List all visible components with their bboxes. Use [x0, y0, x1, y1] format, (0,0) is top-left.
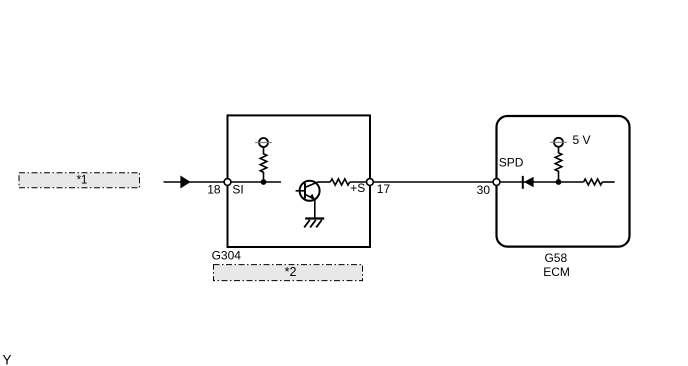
wire from *1 to pin 18	[164, 181, 228, 183]
svg-text:Y: Y	[3, 352, 12, 366]
svg-text:SPD: SPD	[499, 156, 524, 170]
svg-text:G304: G304	[212, 249, 242, 263]
shield box *1	[19, 173, 140, 188]
junction dot (SI / pull-up)	[261, 179, 267, 185]
pin 30 node	[493, 179, 500, 186]
wire junction to resistor R4	[559, 181, 584, 183]
wire resistor R4 end	[602, 181, 614, 183]
arrow (signal direction)	[180, 176, 190, 189]
shield box *2	[214, 265, 363, 281]
svg-text:18: 18	[207, 182, 221, 196]
transistor Q1	[296, 181, 320, 201]
svg-text:30: 30	[477, 183, 491, 197]
svg-text:SI: SI	[232, 182, 243, 196]
ground	[304, 219, 324, 228]
pin 18 node	[224, 179, 231, 186]
resistor R3 (5 V pull-up)	[555, 147, 562, 182]
pin 17 node	[367, 179, 374, 186]
svg-text:17: 17	[377, 182, 391, 196]
svg-text:G58: G58	[544, 251, 567, 265]
resistor R2 (output, +S)	[330, 179, 349, 185]
diode D1	[523, 176, 534, 189]
svg-text:+S: +S	[350, 181, 365, 195]
wire pin 30 to junction	[497, 181, 559, 183]
svg-text:*2: *2	[285, 265, 297, 279]
box U1 ECM	[497, 116, 630, 247]
box G304 (speed sensor)	[228, 115, 371, 247]
svg-text:ECM: ECM	[543, 265, 570, 279]
wire emitter to ground	[314, 199, 316, 219]
resistor R4 (ECM input)	[584, 179, 603, 185]
wire collector to resistor	[318, 181, 331, 183]
svg-text:*1: *1	[77, 175, 88, 187]
svg-text:5 V: 5 V	[573, 133, 591, 147]
junction dot (diode / pull-up)	[556, 179, 562, 185]
wire SI to transistor base	[228, 181, 282, 183]
power terminal circle (G304)	[255, 138, 272, 147]
wire resistor to pin 17	[350, 181, 370, 183]
power terminal circle 5 V	[550, 138, 567, 147]
wire pin 17 to pin 30	[370, 181, 497, 183]
resistor R1 (pull-up in G304)	[260, 147, 267, 182]
